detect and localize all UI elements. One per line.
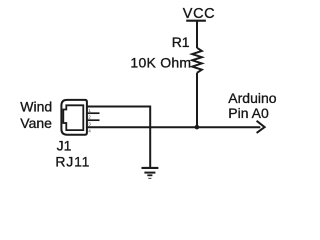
pin 3 stub — [87, 119, 100, 121]
pin 4 wire (connector J1 to Arduino pin A0) — [87, 126, 260, 128]
junction dot node A — [195, 125, 200, 130]
svg-text:10K Ohm: 10K Ohm — [130, 54, 191, 70]
resistor R1 — [192, 48, 202, 73]
connector J1 outer body — [61, 100, 87, 135]
svg-text:Wind: Wind — [20, 99, 52, 115]
power symbol VCC bar — [186, 20, 206, 22]
svg-text:3: 3 — [88, 122, 91, 127]
svg-text:Vane: Vane — [20, 115, 52, 131]
svg-text:1: 1 — [88, 108, 91, 113]
arrowhead to Arduino Pin A0 — [257, 121, 265, 133]
pin 2 stub — [87, 112, 100, 114]
svg-text:J1: J1 — [57, 138, 72, 154]
connector J1 inner jack opening — [63, 105, 83, 130]
wire VCC to resistor R1 — [196, 21, 198, 48]
svg-text:4: 4 — [88, 129, 91, 134]
pin 1 wire (connector J1 to ground, corner at x=150) — [87, 107, 150, 168]
svg-text:VCC: VCC — [183, 6, 215, 22]
wire resistor R1 bottom to node A — [196, 73, 198, 127]
svg-text:Pin A0: Pin A0 — [228, 105, 269, 121]
svg-text:2: 2 — [88, 115, 91, 120]
svg-text:R1: R1 — [172, 34, 190, 50]
svg-text:Arduino: Arduino — [228, 90, 276, 106]
ground symbol — [142, 168, 159, 179]
svg-text:RJ11: RJ11 — [55, 154, 90, 170]
